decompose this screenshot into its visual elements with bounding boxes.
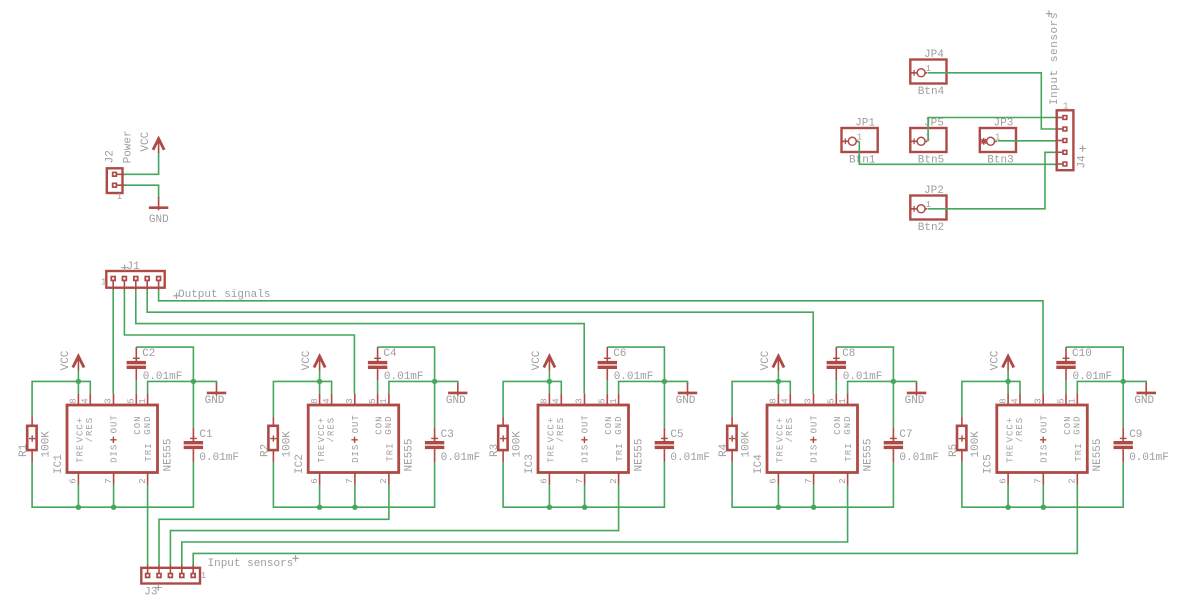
svg-text:CON: CON [604, 415, 614, 434]
svg-text:C4: C4 [383, 348, 397, 360]
svg-text:C7: C7 [899, 429, 912, 441]
svg-text:C8: C8 [842, 348, 855, 360]
svg-text:GND: GND [676, 395, 696, 407]
svg-text:JP2: JP2 [924, 185, 944, 197]
resistor R5 100K [948, 417, 982, 463]
svg-text:CON: CON [833, 415, 843, 434]
svg-text:7: 7 [1034, 478, 1044, 483]
svg-text:Btn4: Btn4 [918, 86, 945, 98]
svg-text:C6: C6 [613, 348, 626, 360]
svg-text:1: 1 [609, 398, 619, 403]
svg-text:Power: Power [123, 130, 135, 163]
svg-text:R4: R4 [718, 443, 730, 457]
svg-text:J2: J2 [104, 150, 116, 163]
svg-text:CON: CON [1063, 415, 1073, 434]
connector J2 [104, 130, 134, 202]
svg-text:6: 6 [769, 478, 779, 483]
svg-text:J1: J1 [127, 261, 141, 273]
svg-text:7: 7 [804, 478, 814, 483]
label Input sensors (bottom) [208, 555, 299, 570]
op-amp IC5 NE555 timer [983, 394, 1104, 485]
junction rail/pin7 (block 5) [1041, 505, 1046, 510]
wire Btn1 net: JP1 to J4 pin5 [859, 141, 1055, 164]
svg-text:100K: 100K [740, 431, 752, 458]
resistor R1 100K [18, 417, 52, 463]
svg-text:GND: GND [905, 395, 925, 407]
svg-text:0.01mF: 0.01mF [670, 452, 710, 464]
connector J1 [101, 261, 165, 290]
svg-text:OUT: OUT [581, 414, 591, 433]
svg-text:1: 1 [1063, 102, 1068, 112]
svg-text:VCC: VCC [140, 131, 152, 151]
svg-text:/RES: /RES [326, 417, 336, 443]
svg-text:TRI: TRI [386, 442, 396, 461]
svg-text:IC5: IC5 [983, 454, 995, 474]
svg-text:VCC: VCC [301, 350, 313, 370]
ground (block 5) [1134, 383, 1156, 407]
connector J4 [1056, 102, 1089, 171]
junction VCC node (block 3) [547, 379, 552, 384]
svg-text:0.01mF: 0.01mF [199, 452, 239, 464]
svg-text:2: 2 [379, 478, 389, 483]
junction GND node (block 5) [1121, 379, 1126, 384]
svg-text:TRE: TRE [547, 444, 557, 463]
svg-text:4: 4 [781, 398, 791, 403]
junction rail/pin7 (block 1) [111, 505, 116, 510]
vcc symbol (block 2) [301, 350, 325, 370]
svg-text:2: 2 [138, 478, 148, 483]
svg-text:8: 8 [769, 398, 779, 403]
svg-text:C10: C10 [1072, 348, 1092, 360]
svg-text:GND: GND [446, 395, 466, 407]
svg-text:Btn2: Btn2 [918, 222, 944, 234]
junction rail/pin6 (block 4) [776, 505, 781, 510]
svg-text:R3: R3 [489, 444, 501, 457]
svg-text:0.01mF: 0.01mF [384, 371, 424, 383]
wire OUT3: J1 pin3 to IC3 pin3 [136, 290, 584, 393]
wire VCC net (block 4) [732, 371, 790, 417]
svg-text:1: 1 [857, 132, 862, 142]
svg-text:NE555: NE555 [162, 438, 174, 471]
wire TRI net (block 5) to J3 [193, 485, 1077, 566]
wire CON net (block 3) [606, 380, 608, 394]
junction rail/pin7 (block 3) [582, 505, 587, 510]
jumper JP3 (Btn3) [980, 118, 1016, 167]
wire VCC net (block 3) [503, 371, 561, 417]
svg-text:GND: GND [1073, 415, 1083, 434]
svg-text:/RES: /RES [1015, 417, 1025, 443]
wire CON net (block 4) [835, 380, 837, 394]
svg-text:GND: GND [205, 395, 225, 407]
svg-text:5: 5 [127, 398, 137, 403]
op-amp IC1 NE555 timer [53, 394, 174, 485]
svg-text:0.01mF: 0.01mF [843, 371, 883, 383]
svg-text:OUT: OUT [351, 414, 361, 433]
svg-text:2: 2 [1068, 478, 1078, 483]
junction GND node (block 1) [191, 379, 196, 384]
svg-text:8: 8 [540, 398, 550, 403]
wire J2 pin2 to VCC [124, 152, 159, 174]
svg-text:C1: C1 [199, 429, 213, 441]
capacitor C4 0.01mF [368, 347, 424, 383]
svg-text:TRE: TRE [1005, 444, 1015, 463]
svg-text:DIS: DIS [1039, 444, 1049, 463]
svg-text:VCC+: VCC+ [776, 417, 786, 443]
ground (block 3) [676, 383, 698, 407]
svg-text:JP5: JP5 [924, 118, 944, 130]
svg-text:Input sensors: Input sensors [1049, 12, 1061, 105]
capacitor C2 0.01mF [127, 347, 183, 383]
wire TRE/DIS rail (block 4) [732, 462, 893, 507]
svg-text:DIS: DIS [810, 444, 820, 463]
svg-text:VCC+: VCC+ [317, 417, 327, 443]
wire VCC net (block 2) [273, 371, 331, 417]
svg-text:JP1: JP1 [855, 118, 875, 130]
svg-text:0.01mF: 0.01mF [899, 452, 939, 464]
wire TRE/DIS rail (block 2) [273, 462, 434, 507]
svg-text:2: 2 [609, 478, 619, 483]
svg-text:OUT: OUT [810, 414, 820, 433]
svg-text:TRI: TRI [615, 442, 625, 461]
svg-text:IC2: IC2 [294, 454, 306, 474]
svg-text:7: 7 [575, 478, 585, 483]
op-amp IC4 NE555 timer [753, 394, 874, 485]
label Output signals [173, 289, 270, 301]
wire CON net (block 5) [1065, 380, 1067, 394]
svg-text:100K: 100K [511, 431, 523, 458]
svg-text:3: 3 [804, 398, 814, 403]
svg-text:J3: J3 [144, 587, 157, 599]
svg-text:GND: GND [143, 415, 153, 434]
svg-text:6: 6 [540, 478, 550, 483]
svg-text:J4: J4 [1077, 155, 1089, 169]
svg-text:0.01mF: 0.01mF [1073, 371, 1113, 383]
wire TRI net (block 2) to J3 [159, 485, 389, 566]
wire CON net (block 2) [377, 380, 379, 394]
svg-text:1: 1 [379, 398, 389, 403]
resistor R2 100K [259, 417, 293, 463]
svg-text:GND: GND [149, 214, 169, 226]
connector J3 [141, 565, 206, 599]
svg-text:C9: C9 [1129, 429, 1142, 441]
svg-text:1: 1 [117, 192, 122, 202]
svg-text:/RES: /RES [85, 417, 95, 443]
svg-text:Input sensors: Input sensors [208, 558, 294, 570]
svg-text:VCC+: VCC+ [76, 417, 86, 443]
svg-text:CON: CON [375, 415, 385, 434]
op-amp IC3 NE555 timer [524, 394, 645, 485]
jumper JP5 (Btn5) [910, 118, 946, 167]
junction GND node (block 4) [891, 379, 896, 384]
resistor R3 100K [489, 417, 523, 463]
svg-text:GND: GND [1134, 395, 1154, 407]
wire TRE/DIS rail (block 5) [962, 462, 1123, 507]
svg-text:3: 3 [345, 398, 355, 403]
junction rail/pin7 (block 2) [352, 505, 357, 510]
wire TRI net (block 3) to J3 [170, 485, 618, 566]
svg-text:1: 1 [201, 571, 206, 581]
wire J2 pin1 to GND [124, 185, 159, 198]
svg-text:Output signals: Output signals [178, 289, 270, 301]
junction VCC node (block 5) [1005, 379, 1010, 384]
svg-text:JP4: JP4 [924, 49, 944, 61]
ground (J2) [149, 197, 169, 226]
svg-text:IC4: IC4 [753, 454, 765, 474]
resistor R4 100K [718, 417, 752, 463]
svg-text:NE555: NE555 [404, 438, 416, 471]
junction VCC node (block 4) [776, 379, 781, 384]
svg-text:6: 6 [310, 478, 320, 483]
svg-text:8: 8 [998, 398, 1008, 403]
svg-text:TRI: TRI [1074, 442, 1084, 461]
svg-text:GND: GND [614, 415, 624, 434]
wire Btn4 net: JP4 to J4 pin2 [928, 73, 1055, 129]
capacitor C7 0.01mF [884, 428, 939, 464]
jumper JP2 (Btn2) [910, 185, 946, 234]
junction rail/pin6 (block 2) [317, 505, 322, 510]
capacitor C10 0.01mF [1056, 347, 1112, 383]
svg-text:VCC: VCC [531, 350, 543, 370]
svg-text:GND: GND [843, 415, 853, 434]
wire TRE/DIS rail (block 3) [503, 462, 664, 507]
svg-text:6: 6 [998, 478, 1008, 483]
svg-text:R1: R1 [18, 443, 30, 457]
power VCC (J2) [140, 131, 164, 153]
ground (block 2) [446, 383, 468, 407]
svg-text:5: 5 [827, 398, 837, 403]
svg-text:8: 8 [69, 398, 79, 403]
svg-text:NE555: NE555 [862, 438, 874, 471]
vcc symbol (block 1) [60, 350, 84, 370]
svg-text:0.01mF: 0.01mF [143, 371, 183, 383]
capacitor C6 0.01mF [598, 347, 654, 383]
svg-text:DIS: DIS [351, 444, 361, 463]
svg-text:GND: GND [384, 415, 394, 434]
svg-text:VCC+: VCC+ [547, 417, 557, 443]
svg-text:TRE: TRE [776, 444, 786, 463]
wire TRI net (block 1) to J3 [147, 485, 149, 566]
wire GND net (block 3) [607, 347, 687, 428]
svg-text:R5: R5 [948, 444, 960, 457]
capacitor C9 0.01mF [1114, 428, 1169, 464]
junction GND node (block 2) [432, 379, 437, 384]
junction GND node (block 3) [662, 379, 667, 384]
label Input sensors (top right, rotated) [1046, 11, 1061, 106]
svg-text:1: 1 [101, 278, 106, 288]
wire OUT1: J1 pin1 to IC1 pin3 [112, 290, 114, 393]
junction rail/pin6 (block 5) [1005, 505, 1010, 510]
jumper JP1 (Btn1) [842, 118, 878, 167]
svg-text:7: 7 [104, 478, 114, 483]
wire OUT2: J1 pin2 to IC2 pin3 [124, 290, 354, 393]
svg-text:/RES: /RES [785, 417, 795, 443]
svg-text:TRE: TRE [76, 444, 86, 463]
svg-text:DIS: DIS [110, 444, 120, 463]
svg-text:6: 6 [69, 478, 79, 483]
svg-text:0.01mF: 0.01mF [1129, 452, 1169, 464]
svg-text:R2: R2 [259, 444, 271, 457]
svg-text:3: 3 [1034, 398, 1044, 403]
svg-text:100K: 100K [40, 431, 52, 458]
jumper JP4 (Btn4) [910, 49, 946, 98]
junction rail/pin7 (block 4) [811, 505, 816, 510]
svg-text:8: 8 [310, 398, 320, 403]
svg-text:100K: 100K [282, 431, 294, 458]
svg-text:4: 4 [322, 398, 332, 403]
vcc symbol (block 5) [990, 350, 1014, 370]
svg-text:TRI: TRI [844, 442, 854, 461]
wire CON net (block 1) [135, 380, 137, 394]
wire VCC net (block 5) [962, 371, 1020, 417]
svg-text:OUT: OUT [110, 414, 120, 433]
ground (block 1) [205, 383, 227, 407]
svg-text:5: 5 [1056, 398, 1066, 403]
svg-text:1: 1 [1068, 398, 1078, 403]
wire GND net (block 4) [836, 347, 916, 428]
svg-text:IC1: IC1 [53, 454, 65, 474]
op-amp IC2 NE555 timer [294, 394, 415, 485]
svg-text:4: 4 [1010, 398, 1020, 403]
svg-text:5: 5 [368, 398, 378, 403]
svg-text:4: 4 [552, 398, 562, 403]
junction VCC node (block 1) [76, 379, 81, 384]
svg-text:3: 3 [104, 398, 114, 403]
wire TRI net (block 4) to J3 [182, 485, 848, 566]
wire OUT5: J1 pin5 to IC5 pin3 [159, 290, 1043, 393]
svg-text:TRI: TRI [144, 442, 154, 461]
capacitor C5 0.01mF [655, 428, 710, 464]
svg-text:2: 2 [838, 478, 848, 483]
svg-text:VCC: VCC [760, 350, 772, 370]
junction rail/pin6 (block 3) [547, 505, 552, 510]
svg-text:C3: C3 [441, 429, 454, 441]
capacitor C3 0.01mF [425, 428, 480, 464]
capacitor C8 0.01mF [827, 347, 883, 383]
vcc symbol (block 4) [760, 350, 784, 370]
svg-text:DIS: DIS [581, 444, 591, 463]
wire Btn5 net: JP5 to J4 pin1 [928, 118, 1055, 142]
svg-text:/RES: /RES [556, 417, 566, 443]
svg-text:NE555: NE555 [633, 438, 645, 471]
wire OUT4: J1 pin4 to IC4 pin3 [147, 290, 813, 393]
wire GND net (block 1) [136, 347, 216, 428]
svg-text:OUT: OUT [1039, 414, 1049, 433]
svg-text:NE555: NE555 [1092, 438, 1104, 471]
svg-text:IC3: IC3 [524, 454, 536, 474]
capacitor C1 0.01mF [184, 428, 239, 464]
wire VCC net (block 1) [32, 371, 90, 417]
svg-text:JP3: JP3 [994, 118, 1014, 130]
svg-text:5: 5 [598, 398, 608, 403]
wire Btn3 net: JP3 to J4 pin3 [998, 140, 1056, 142]
svg-text:100K: 100K [970, 431, 982, 458]
svg-text:VCC: VCC [990, 350, 1002, 370]
vcc symbol (block 3) [531, 350, 555, 370]
wire GND net (block 5) [1066, 347, 1146, 428]
svg-text:CON: CON [133, 415, 143, 434]
svg-text:C5: C5 [670, 429, 683, 441]
svg-text:0.01mF: 0.01mF [614, 371, 654, 383]
junction rail/pin6 (block 1) [76, 505, 81, 510]
wire GND net (block 2) [378, 347, 458, 428]
svg-text:4: 4 [81, 398, 91, 403]
ground (block 4) [905, 383, 927, 407]
svg-text:7: 7 [345, 478, 355, 483]
svg-text:1: 1 [138, 398, 148, 403]
svg-text:VCC+: VCC+ [1005, 417, 1015, 443]
svg-text:1: 1 [838, 398, 848, 403]
svg-text:3: 3 [575, 398, 585, 403]
junction VCC node (block 2) [317, 379, 322, 384]
wire TRE/DIS rail (block 1) [32, 462, 193, 507]
svg-text:TRE: TRE [317, 444, 327, 463]
svg-text:0.01mF: 0.01mF [441, 452, 481, 464]
svg-text:C2: C2 [142, 348, 155, 360]
svg-text:VCC: VCC [60, 350, 72, 370]
wire Btn2 net: JP2 to J4 pin4 [928, 152, 1055, 209]
